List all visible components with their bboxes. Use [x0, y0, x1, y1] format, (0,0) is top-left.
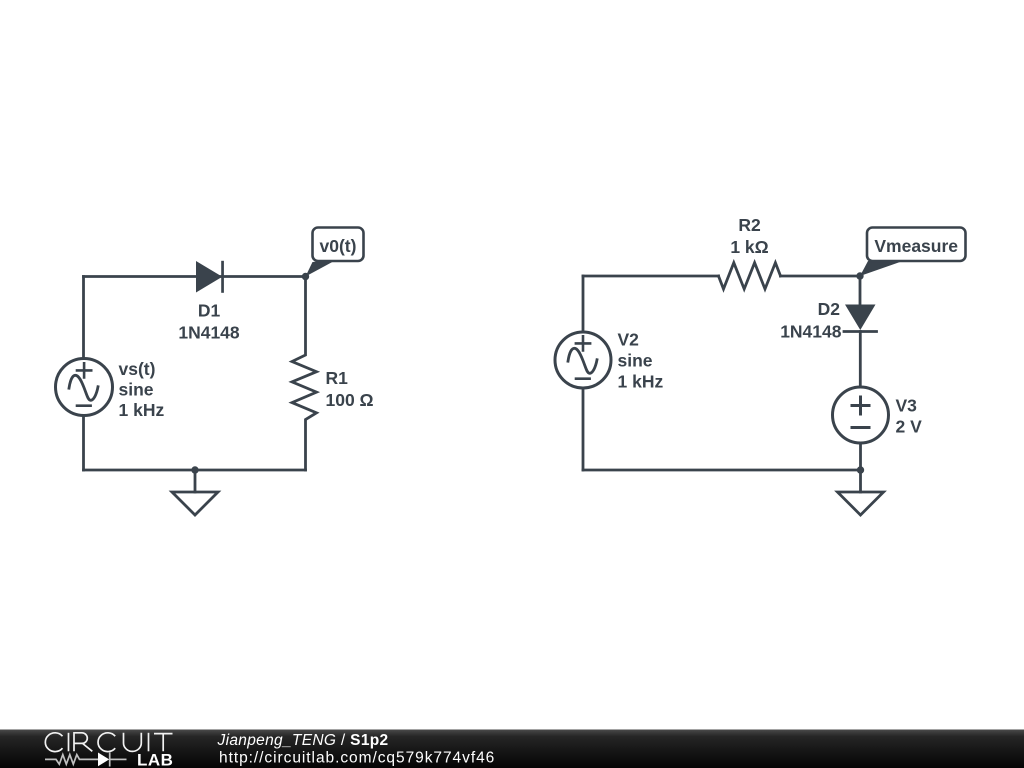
resistor R2 [719, 263, 781, 289]
svg-text:sine: sine [618, 351, 653, 371]
svg-text:v0(t): v0(t) [320, 236, 357, 256]
wire: right circuit top rail right of R2 [781, 275, 861, 278]
T [154, 734, 173, 752]
svg-text:D2: D2 [818, 299, 841, 319]
logo CIRCUIT [45, 733, 172, 752]
ground right stem [859, 470, 862, 492]
diode D2 cathode bar [844, 330, 877, 333]
ground left triangle [172, 492, 218, 515]
logo diode triangle [98, 753, 109, 767]
svg-text:Vmeasure: Vmeasure [874, 236, 958, 256]
flag box v0(t) [313, 228, 364, 262]
flag wedge Vmeasure [860, 260, 907, 277]
svg-text:100 Ω: 100 Ω [326, 390, 374, 410]
wire: left circuit bottom rail [84, 469, 306, 472]
flag box Vmeasure [867, 228, 966, 262]
U [124, 733, 142, 752]
wire: left circuit left rail upper [82, 277, 85, 359]
svg-text:LAB: LAB [137, 751, 173, 768]
resistor R1 [292, 277, 317, 471]
node dot right vmeasure [856, 272, 863, 279]
svg-text:1N4148: 1N4148 [780, 322, 842, 342]
node dot left ground [191, 466, 198, 473]
svg-text:R1: R1 [326, 368, 349, 388]
node dot right ground [857, 466, 864, 473]
C [98, 733, 115, 752]
svg-text:R2: R2 [738, 215, 761, 235]
svg-text:1 kΩ: 1 kΩ [730, 237, 768, 257]
flag wedge v0(t) [306, 260, 337, 277]
wire: diode D2 cathode to V3 [859, 332, 862, 388]
svg-text:D1: D1 [198, 301, 221, 321]
voltage source V3 [833, 387, 889, 443]
ground right triangle [838, 492, 884, 515]
svg-text:Jianpeng_TENG / S1p2: Jianpeng_TENG / S1p2 [217, 732, 389, 749]
wire: left circuit left rail lower [82, 416, 85, 471]
svg-text:V2: V2 [618, 330, 640, 350]
diode D1 triangle [196, 261, 222, 293]
wire: right circuit left rail lower [582, 388, 585, 470]
wire: left circuit top rail [84, 275, 306, 278]
svg-text:vs(t): vs(t) [119, 359, 156, 379]
I [148, 733, 150, 752]
voltage source V2 [555, 332, 611, 388]
wire: right circuit left rail upper [582, 276, 585, 332]
svg-text:http://circuitlab.com/cq579k77: http://circuitlab.com/cq579k774vf46 [219, 749, 495, 766]
R [74, 733, 92, 752]
logo resistor-diode line [45, 752, 127, 766]
I [68, 733, 70, 752]
diode D2 triangle [845, 305, 876, 331]
wire: right circuit top rail left of R2 [583, 275, 719, 278]
wire: V3 to bottom rail [859, 443, 862, 470]
svg-text:sine: sine [119, 380, 154, 400]
wire: right circuit bottom rail [583, 469, 861, 472]
voltage source vs(t) [56, 359, 113, 416]
diode D1 cathode bar [221, 261, 224, 293]
svg-text:V3: V3 [896, 396, 918, 416]
svg-text:1 kHz: 1 kHz [618, 372, 664, 392]
C [45, 733, 62, 752]
svg-text:1 kHz: 1 kHz [119, 400, 165, 420]
svg-text:2 V: 2 V [896, 417, 923, 437]
wire: node Vmeasure to diode D2 anode [859, 276, 862, 305]
ground left stem [194, 470, 197, 492]
node dot left v0 [302, 273, 309, 280]
svg-text:1N4148: 1N4148 [178, 323, 240, 343]
